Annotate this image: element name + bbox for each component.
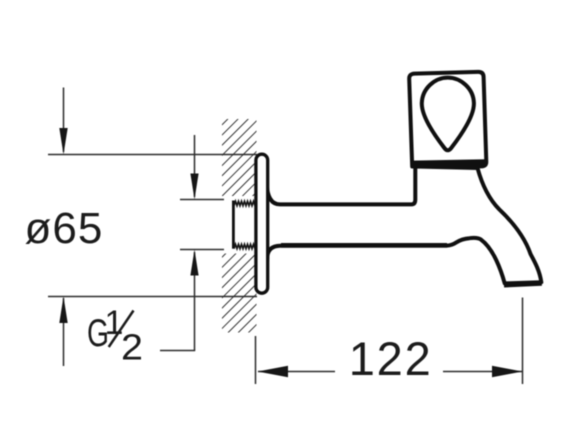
- svg-text:ø65: ø65: [25, 204, 104, 253]
- svg-text:122: 122: [349, 332, 433, 385]
- svg-text:2: 2: [121, 327, 143, 368]
